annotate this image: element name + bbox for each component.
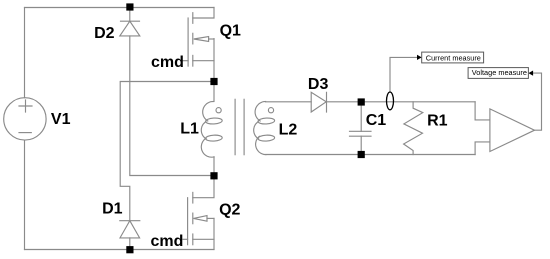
wire D3 cathode to output node [327, 101, 476, 103]
wire left rail lower [24, 140, 26, 249]
wire D1 anode to bottom rail [129, 238, 131, 250]
node junction C1 top [358, 98, 365, 105]
svg-text:C1: C1 [366, 112, 387, 129]
node junction primary top [210, 78, 217, 85]
svg-text:Q2: Q2 [219, 202, 240, 219]
diode D3 [311, 92, 326, 112]
diode D2 [120, 8, 140, 36]
transistor Q1 [182, 8, 214, 79]
svg-text:V1: V1 [51, 111, 71, 128]
voltage source V1 [4, 98, 46, 140]
inductor L1 (primary winding) [201, 82, 222, 176]
op-amp input jog top [475, 102, 490, 120]
svg-text:D1: D1 [102, 200, 123, 217]
current sensor [387, 92, 394, 110]
svg-text:D3: D3 [308, 76, 329, 93]
block Voltage measure [468, 68, 528, 79]
diode D1 [120, 221, 140, 238]
svg-text:cmd: cmd [151, 54, 184, 71]
wire secondary bottom rail [266, 154, 475, 156]
svg-text:Current measure: Current measure [426, 53, 481, 62]
node junction bottom-left [126, 246, 133, 253]
transistor Q2 [183, 176, 214, 250]
resistor R1 [404, 102, 423, 155]
svg-text:Q1: Q1 [220, 23, 241, 40]
capacitor C1 [350, 102, 372, 155]
wire primary top node to D1 cathode [120, 82, 214, 221]
op-amp input jog bottom [475, 142, 490, 155]
wire current sensor tap [390, 57, 417, 92]
node junction C1 bottom [358, 151, 365, 158]
wire secondary top rail [266, 101, 312, 103]
wire D2 anode to primary bottom node [130, 36, 214, 176]
wire left rail upper [24, 8, 26, 98]
transformer core [234, 99, 236, 154]
arrowhead into voltage measure box [528, 71, 533, 76]
node junction primary bottom [210, 172, 217, 179]
op-amp U1 [490, 109, 535, 152]
svg-text:Voltage measure: Voltage measure [472, 68, 527, 77]
svg-text:R1: R1 [427, 112, 448, 129]
node junction top-left [126, 3, 133, 10]
block Current measure [422, 52, 484, 63]
svg-text:cmd: cmd [151, 233, 184, 250]
inductor L2 (secondary winding) [254, 102, 275, 155]
wire bottom rail [25, 249, 215, 251]
svg-text:L2: L2 [279, 121, 298, 138]
arrowhead into current measure box [417, 55, 422, 60]
wire top rail [25, 7, 215, 9]
svg-text:L1: L1 [180, 120, 199, 137]
svg-text:D2: D2 [94, 25, 115, 42]
wire op-amp output [533, 73, 541, 130]
